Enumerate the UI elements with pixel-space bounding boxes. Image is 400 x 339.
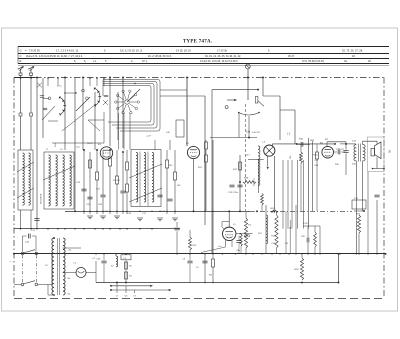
svg-text:( 4,: ( 4,	[93, 60, 97, 63]
svg-text:52, 73, 26, 27, 28,: 52, 73, 26, 27, 28,	[342, 49, 363, 53]
svg-text:Fe t: Fe t	[219, 245, 223, 248]
svg-text:37,6, 25,26,6 24,33,: 37,6, 25,26,6 24,33,	[302, 60, 325, 63]
svg-text:7 8 20 30: 7 8 20 30	[29, 49, 40, 53]
svg-text:14 15, 18 19: 14 15, 18 19	[176, 49, 191, 53]
svg-text:G.: G.	[20, 49, 23, 53]
svg-text:~: ~	[10, 260, 12, 264]
svg-text:2,: 2,	[131, 60, 133, 63]
svg-text:16 +7 28,29, 30 31 6,: 16 +7 28,29, 30 31 6,	[148, 55, 172, 58]
svg-text:34, 19, 21, 23, 25, 31 40, 41,: 34, 19, 21, 23, 25, 31 40, 41, 42,	[205, 55, 241, 58]
svg-text:17, 1 2 3 4 6 10, 11: 17, 1 2 3 4 6 10, 11	[56, 49, 79, 53]
svg-text:S10 S17: S10 S17	[252, 132, 261, 134]
svg-text:2(w)+3,72, 4,33,9,24,35,36 10,: 2(w)+3,72, 4,33,9,24,35,36 10, 11,82, 7,…	[26, 55, 83, 58]
svg-text:6,: 6,	[84, 60, 86, 63]
svg-text:37 1,: 37 1,	[142, 60, 148, 63]
svg-text:C:: C:	[20, 55, 23, 58]
svg-text:R 35: R 35	[303, 223, 308, 225]
svg-text:TYPE 747A.: TYPE 747A.	[183, 39, 212, 44]
svg-text:17 23 2b: 17 23 2b	[217, 49, 228, 53]
svg-text:C3a: C3a	[246, 132, 251, 134]
svg-text:C23 C23a: C23 C23a	[228, 192, 239, 194]
svg-text:NOLLWOB: NOLLWOB	[41, 193, 43, 204]
svg-text:Synchro: Synchro	[253, 178, 256, 186]
svg-text:5,: 5,	[74, 60, 76, 63]
svg-text:R.: R.	[20, 60, 23, 63]
svg-text:5,6, 6,7,8 19, 16, 2i: 5,6, 6,7,8 19, 16, 2i	[120, 49, 143, 53]
svg-text:R6 L3: R6 L3	[87, 143, 93, 145]
svg-text:45 47: 45 47	[288, 55, 295, 58]
svg-text:4 14,6 2b, 14 6 26, 10 12 6 0: 4 14,6 2b, 14 6 26, 10 12 6 0 28 2	[200, 60, 238, 63]
svg-text:520 521: 520 521	[113, 180, 121, 182]
svg-text:34,: 34,	[344, 60, 348, 63]
